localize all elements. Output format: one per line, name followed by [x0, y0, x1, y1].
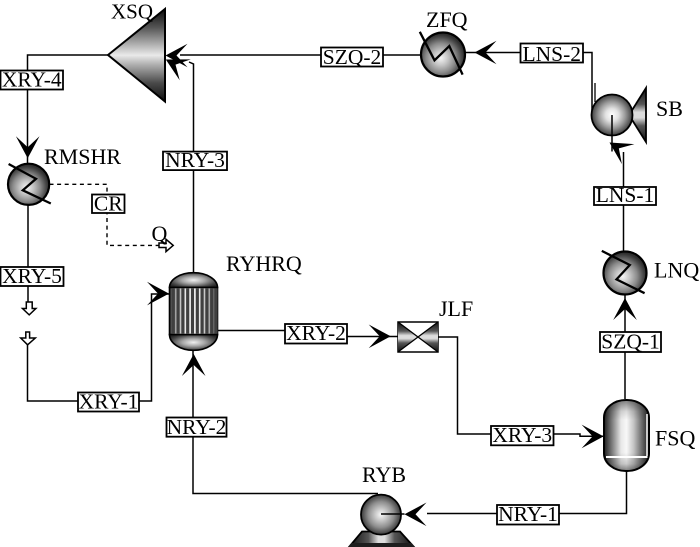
svg-text:RYB: RYB [362, 462, 406, 487]
svg-text:CR: CR [94, 192, 123, 216]
svg-text:LNQ: LNQ [654, 258, 699, 283]
svg-text:SZQ-1: SZQ-1 [601, 330, 660, 354]
svg-text:ZFQ: ZFQ [426, 7, 468, 32]
svg-text:NRY-3: NRY-3 [165, 148, 225, 172]
svg-text:NRY-1: NRY-1 [498, 502, 558, 526]
svg-text:XRY-2: XRY-2 [286, 321, 346, 345]
svg-text:XSQ: XSQ [111, 0, 153, 24]
svg-text:RYHRQ: RYHRQ [226, 251, 302, 276]
svg-text:FSQ: FSQ [655, 426, 695, 451]
svg-text:XRY-1: XRY-1 [79, 390, 139, 414]
svg-text:LNS-2: LNS-2 [522, 42, 581, 66]
svg-text:XRY-5: XRY-5 [2, 264, 62, 288]
svg-text:NRY-2: NRY-2 [167, 415, 227, 439]
svg-text:RMSHR: RMSHR [44, 144, 121, 169]
svg-text:XRY-3: XRY-3 [492, 423, 552, 447]
svg-text:LNS-1: LNS-1 [596, 183, 655, 207]
svg-text:XRY-4: XRY-4 [2, 68, 62, 92]
svg-text:Q: Q [152, 221, 168, 246]
svg-text:SZQ-2: SZQ-2 [323, 45, 382, 69]
svg-text:JLF: JLF [439, 296, 473, 321]
svg-text:SB: SB [656, 96, 683, 121]
